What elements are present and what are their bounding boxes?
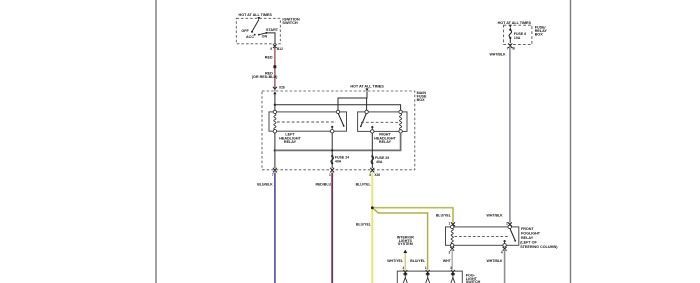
- wire coil commons bus: [274, 133, 401, 168]
- svg-text:BLU/BLK: BLU/BLK: [257, 182, 273, 186]
- connector pin 3 at foglight relay bottom: [449, 247, 455, 255]
- relay K1 LEFT HEADLIGHT RELAY box: [269, 112, 347, 131]
- svg-text:X26: X26: [374, 173, 380, 177]
- wire BLU/YEL fog light feed: [356, 173, 373, 283]
- connector pin 1 at foglight relay: [449, 221, 455, 226]
- relay K2 coil: [399, 110, 402, 133]
- wire WHT from relay pin 3 to fog switch pin 3: [443, 249, 452, 270]
- svg-text:SYSTEM: SYSTEM: [398, 242, 413, 246]
- svg-text:4: 4: [501, 250, 503, 254]
- svg-text:1: 1: [329, 173, 331, 177]
- svg-text:10A: 10A: [514, 36, 521, 40]
- fog light switch box outline: [397, 271, 462, 283]
- svg-text:X26: X26: [279, 86, 285, 90]
- connector pin 2 at foglight relay: [506, 221, 512, 226]
- junction on BLU/YEL wire: [371, 206, 374, 209]
- svg-text:40A: 40A: [335, 160, 342, 164]
- svg-text:RED: RED: [265, 56, 273, 60]
- relay K1 actuation dashed line: [277, 121, 336, 123]
- connector pin 4 at fog switch: [403, 266, 408, 275]
- wire relay K1 output through fuse: [331, 133, 333, 168]
- svg-text:9: 9: [270, 47, 272, 51]
- relay K1 switch: [331, 110, 345, 133]
- svg-text:BLU/YEL: BLU/YEL: [410, 259, 426, 263]
- net HOT AT ALL TIMES (battery feed to relays): [350, 85, 384, 92]
- node INTERIOR LIGHTS SYSTEM: [397, 236, 415, 253]
- wire label RED (OR RED-BLU): [252, 71, 278, 79]
- fog switch contact pin 4: [403, 272, 407, 283]
- svg-text:BLU/YEL: BLU/YEL: [356, 182, 372, 186]
- svg-text:HOT AT ALL TIMES: HOT AT ALL TIMES: [498, 21, 532, 25]
- svg-text:7: 7: [507, 47, 509, 51]
- svg-text:WHT/BLK: WHT/BLK: [487, 214, 504, 218]
- svg-text:3: 3: [449, 250, 451, 254]
- right fuse/relay box outline: [504, 25, 532, 44]
- svg-text:RELAY: RELAY: [521, 236, 534, 240]
- connector pin 3 at fog switch: [450, 266, 455, 275]
- fog switch contact pin 1: [426, 272, 430, 283]
- svg-text:BLU/YEL: BLU/YEL: [436, 214, 452, 218]
- fuse F3 FUSE 6 10A: [509, 28, 526, 43]
- label FUSE/RELAY BOX: [535, 26, 548, 37]
- svg-text:(OR RED-BLU): (OR RED-BLU): [252, 75, 278, 79]
- relay K2 actuation dashed line: [361, 121, 399, 123]
- svg-text:BOX: BOX: [417, 98, 426, 102]
- svg-text:WHT/BLK: WHT/BLK: [489, 53, 506, 57]
- ignition switch contacts and arm: [241, 20, 278, 39]
- label FOG LIGHT SWITCH: [466, 273, 481, 283]
- svg-text:WHT: WHT: [443, 259, 452, 263]
- wire START output inside ignition switch: [266, 33, 275, 44]
- svg-text:(LEFT OF: (LEFT OF: [520, 241, 537, 245]
- svg-text:RELAY: RELAY: [284, 140, 297, 144]
- connector pins 7 B at right fuse box bottom: [507, 43, 516, 50]
- svg-text:B12: B12: [277, 47, 283, 51]
- connector X26 at main fuse box entry: [273, 86, 285, 95]
- svg-text:OFF: OFF: [241, 29, 249, 33]
- label LEFT HEADLIGHT RELAY: [279, 133, 301, 145]
- wire relay K2 output through fuse: [371, 133, 373, 168]
- svg-text:ACC: ACC: [246, 35, 254, 39]
- svg-text:4: 4: [403, 266, 405, 270]
- relay K3 coil: [451, 225, 454, 247]
- svg-text:ON: ON: [262, 35, 268, 39]
- svg-text:STEERING COLUMN): STEERING COLUMN): [520, 245, 558, 249]
- svg-text:HOT AT ALL TIMES: HOT AT ALL TIMES: [350, 85, 384, 89]
- fog switch contact pin 3: [451, 272, 455, 283]
- wire WHT/YEL from fog switch pin 4 to interior lights system: [387, 253, 405, 270]
- relay K3 actuation dashed line: [455, 236, 509, 238]
- connector pin 7 at main fuse box bottom: [272, 168, 277, 177]
- svg-text:2: 2: [506, 221, 508, 225]
- svg-text:FOGLIGHT: FOGLIGHT: [521, 232, 541, 236]
- svg-text:3: 3: [369, 173, 371, 177]
- net HOT AT ALL TIMES (fuse 6 feed): [498, 21, 532, 28]
- svg-text:RELAY: RELAY: [379, 140, 392, 144]
- label IGNITION SWITCH: [282, 17, 299, 25]
- svg-text:SWITCH: SWITCH: [282, 20, 298, 25]
- svg-text:3: 3: [450, 266, 452, 270]
- relay K2 switch: [360, 110, 374, 133]
- connector pin 4 at foglight relay bottom: [501, 247, 507, 255]
- wire RED/BLU right headlight feed: [315, 173, 332, 283]
- svg-text:RED/BLU: RED/BLU: [315, 182, 331, 186]
- relay K3 switch: [503, 225, 516, 247]
- svg-text:1: 1: [425, 266, 427, 270]
- wire RED feed to relay coils: [274, 94, 401, 110]
- svg-text:40A: 40A: [376, 160, 383, 164]
- svg-text:BOX: BOX: [535, 32, 544, 36]
- relay K1 coil: [273, 110, 276, 133]
- svg-text:HOT AT ALL TIMES: HOT AT ALL TIMES: [239, 13, 273, 17]
- wire WHT/BLK from fuse 6 to foglight relay pin 2: [487, 46, 510, 222]
- label FRONT FOGLIGHT RELAY (LEFT OF STEERING COLUMN): [520, 227, 558, 249]
- relay K3 FRONT FOGLIGHT RELAY box: [446, 227, 519, 245]
- relay K2 RIGHT HEADLIGHT RELAY box: [358, 112, 407, 131]
- svg-text:START: START: [266, 28, 279, 32]
- svg-text:FRONT: FRONT: [521, 227, 534, 231]
- label RIGHT HEADLIGHT RELAY: [374, 133, 396, 145]
- fuse F2 FUSE 29 40A: [371, 155, 389, 164]
- label MAIN FUSE BOX: [417, 91, 427, 102]
- wire WHT/BLK from relay pin 4 to fog lights: [486, 249, 504, 283]
- wire BLU/BLK left headlight feed: [257, 173, 275, 283]
- wire RED from ignition switch to main fuse box: [265, 47, 275, 88]
- main fuse box outline: [262, 91, 415, 170]
- svg-text:BLU/YEL: BLU/YEL: [356, 223, 372, 227]
- ignition switch box outline: [236, 18, 280, 44]
- connector at ignition switch output, pins 9 / B12: [270, 44, 283, 51]
- svg-text:1: 1: [449, 221, 451, 225]
- splice on RED wire: [273, 65, 276, 68]
- svg-text:WHT/BLK: WHT/BLK: [486, 259, 503, 263]
- connector pin 1 at fog switch: [425, 266, 430, 275]
- wire battery feed to relay switch pins: [338, 91, 367, 110]
- svg-text:7: 7: [272, 173, 274, 177]
- net HOT AT ALL TIMES (ignition feed): [239, 13, 273, 20]
- svg-text:WHT/YEL: WHT/YEL: [387, 259, 404, 263]
- connector pin 1 at main fuse box bottom: [329, 168, 334, 177]
- connector pin 3 X26 at main fuse box bottom: [369, 168, 380, 177]
- wire BLU/YEL branch to foglight relay pin 1: [372, 208, 453, 223]
- fuse F1 FUSE 24 40A: [331, 155, 349, 165]
- wire BLU/YEL branch to fog switch pin 1: [372, 208, 427, 270]
